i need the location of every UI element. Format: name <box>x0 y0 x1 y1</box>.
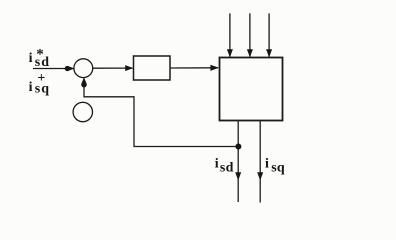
wire isd output <box>237 121 239 203</box>
svg-text:i: i <box>29 51 33 66</box>
junction dot isd feedback tap <box>235 144 241 150</box>
arrowhead into controller block <box>125 65 133 71</box>
svg-text:i: i <box>29 80 33 95</box>
converter block (large square) <box>220 58 283 121</box>
wire summing junction to controller block <box>93 67 133 69</box>
arrowhead top input 3 <box>266 49 272 57</box>
svg-text:i: i <box>215 157 219 172</box>
wire controller block to converter block <box>170 67 218 69</box>
wire input isd* reference into summing junction <box>33 68 74 70</box>
junction dot below summing junction <box>81 82 86 87</box>
arrowhead top input 2 <box>247 49 253 57</box>
svg-text:i: i <box>265 157 269 172</box>
arrowhead into summing junction left <box>68 66 75 71</box>
wire top input 2 <box>249 13 251 56</box>
controller block (rectangle) <box>134 56 171 80</box>
arrowhead top input 1 <box>227 49 233 57</box>
junction dot on input wire <box>65 66 70 71</box>
summing junction circle <box>74 59 93 78</box>
svg-text:*: * <box>36 47 44 63</box>
auxiliary summing circle (second loop) <box>73 102 92 121</box>
wire top input 3 <box>268 13 270 56</box>
svg-text:sd: sd <box>220 160 234 175</box>
wire isd feedback path <box>84 79 238 147</box>
svg-text:sq: sq <box>271 160 285 175</box>
arrowhead feedback into summing junction bottom <box>81 77 87 84</box>
arrowhead isq output down <box>257 172 263 180</box>
arrowhead isd output down <box>235 172 241 180</box>
arrowhead into converter block <box>210 65 218 71</box>
wire isq output <box>259 121 261 203</box>
svg-text:+: + <box>37 71 45 86</box>
wire top input 1 <box>229 13 231 56</box>
